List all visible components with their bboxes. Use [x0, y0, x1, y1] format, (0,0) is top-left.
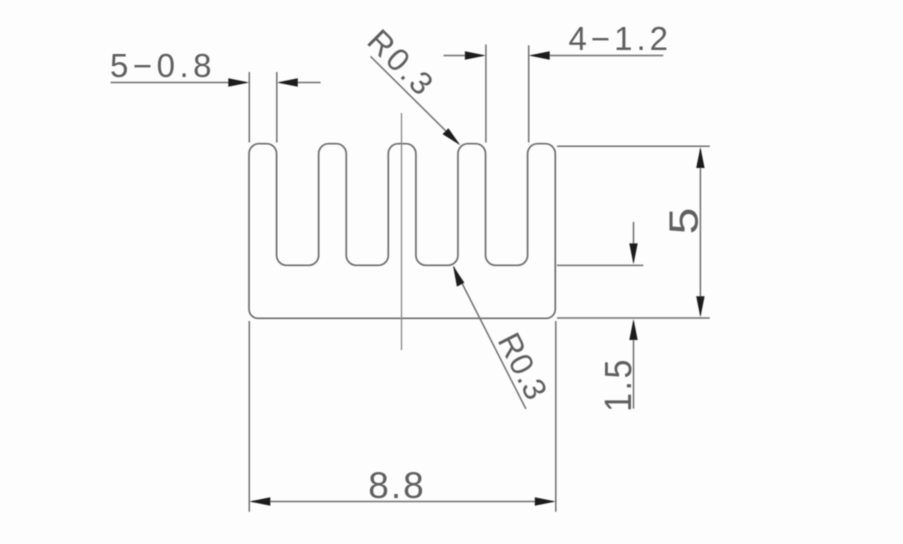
svg-text:8.8: 8.8 [368, 465, 425, 506]
svg-text:R0.3: R0.3 [491, 327, 555, 406]
svg-text:4−1.2: 4−1.2 [569, 20, 673, 57]
svg-text:R0.3: R0.3 [361, 22, 443, 104]
svg-text:5: 5 [662, 208, 707, 235]
svg-text:1.5: 1.5 [596, 357, 639, 412]
svg-text:5−0.8: 5−0.8 [110, 47, 216, 84]
